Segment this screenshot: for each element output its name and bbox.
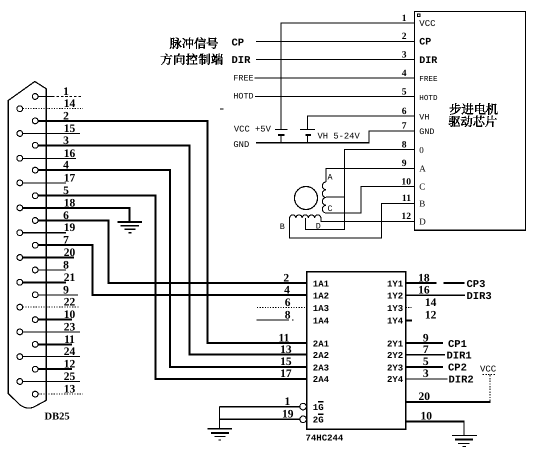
- wire 1G enable: [220, 406, 300, 408]
- svg-text:HOTD: HOTD: [233, 91, 253, 101]
- wire DB25 pin4 to 74HC244 2A3: [38, 170, 307, 367]
- svg-text:12: 12: [401, 211, 411, 222]
- wire DB25 pin8 stub: [38, 269, 66, 271]
- wire 2Y2 to DIR1: [406, 354, 445, 356]
- svg-text:CP: CP: [232, 38, 245, 50]
- svg-text:10: 10: [401, 176, 411, 187]
- svg-text:GND: GND: [233, 140, 249, 150]
- svg-text:FREE: FREE: [419, 76, 438, 84]
- wire DB25 pin12 stub: [38, 368, 72, 370]
- wire DB25 pin11 stub: [38, 343, 72, 345]
- svg-text:D: D: [419, 217, 426, 227]
- svg-text:17: 17: [280, 368, 292, 380]
- svg-text:2G: 2G: [313, 416, 324, 426]
- DB25 pin 23 contact: [17, 329, 23, 335]
- svg-text:CP: CP: [419, 38, 431, 49]
- wire phase A coil to driver pin9: [326, 168, 415, 182]
- svg-text:7: 7: [402, 121, 407, 132]
- wire 1Y2 to DIR3: [406, 294, 465, 296]
- wire VCC to U1 pin20 (dotted drop): [489, 375, 491, 402]
- wire 1Y3 stub (dotted): [406, 307, 412, 309]
- svg-text:0: 0: [419, 145, 424, 155]
- wire 2Y1 to CP1: [406, 342, 443, 344]
- svg-text:C: C: [328, 204, 333, 214]
- DB25 pin 16 contact: [17, 155, 23, 161]
- wire driver pin1 VCC to battery B1: [281, 23, 415, 129]
- driver pin 1 stub: [401, 22, 415, 24]
- wire DB25 pin19 stub: [23, 232, 66, 234]
- wire U1 1A4 stub: [257, 319, 290, 321]
- wire common 0 driver pin8: [306, 150, 415, 230]
- DB25 pin 5 contact: [32, 193, 38, 199]
- svg-text:VCC: VCC: [480, 365, 497, 375]
- DB25 pin 7 contact: [32, 242, 38, 248]
- svg-text:8: 8: [285, 309, 291, 321]
- connector J1 DB25 outline: [8, 82, 46, 409]
- wire enable to ground G2: [219, 407, 221, 428]
- svg-text:1G: 1G: [313, 403, 324, 413]
- wire DB25 pin18 to ground: [23, 208, 130, 222]
- svg-text:13: 13: [280, 344, 292, 356]
- wire DB25 pin24 stub: [23, 356, 80, 358]
- DB25 pin 2 contact: [32, 118, 38, 124]
- wire 2Y4 to DIR2: [406, 378, 448, 380]
- DB25 pin 3 contact: [32, 142, 38, 148]
- wire phase B coil to driver pin11: [290, 203, 415, 238]
- wire 1Y1 to CP3: [406, 282, 437, 284]
- svg-text:A: A: [328, 173, 334, 183]
- svg-text:11: 11: [279, 332, 290, 344]
- svg-text:2A1: 2A1: [313, 340, 330, 350]
- svg-text:15: 15: [280, 356, 292, 368]
- DB25 pin 19 contact: [17, 230, 23, 236]
- wire DB25 pin10 stub: [38, 319, 72, 321]
- svg-text:CP2: CP2: [448, 363, 467, 375]
- wire U1 pin20 VCC supply: [406, 401, 491, 403]
- U1 1G inverter bubble: [300, 403, 307, 410]
- svg-text:1Y3: 1Y3: [387, 304, 403, 314]
- svg-text:14: 14: [425, 297, 437, 309]
- wire DB25 pin7 to 74HC244 1A2: [38, 245, 307, 295]
- driver pin 6 stub: [401, 115, 415, 117]
- battery B2 VH positive plate: [300, 129, 315, 131]
- svg-text:A: A: [419, 164, 426, 174]
- svg-text:FREE: FREE: [233, 73, 253, 83]
- svg-text:DIR1: DIR1: [447, 350, 472, 362]
- DB25 pin 13 contact: [32, 391, 38, 397]
- svg-text:CP3: CP3: [467, 279, 486, 291]
- wire DIR to driver pin3: [256, 59, 415, 61]
- wire battery B1 to GND rail: [280, 136, 282, 143]
- wire U1 1A3 stub (dotted): [257, 307, 307, 309]
- wire DB25 pin6 to 74HC244 1A1: [38, 221, 307, 284]
- wire DB25 pin2 to 74HC244 2A1: [38, 121, 307, 343]
- svg-text:B: B: [280, 222, 285, 232]
- label pulse-signal (Chinese) 脉冲信号: [170, 37, 218, 48]
- wire DB25 pin13 stub (dotted): [38, 393, 83, 395]
- svg-text:2A4: 2A4: [313, 375, 330, 385]
- wire DB25 pin17 stub: [23, 182, 66, 184]
- driver pin 7 stub: [401, 130, 415, 132]
- DB25 pin 24 contact: [17, 354, 23, 360]
- wire DB25 pin14 stub (dotted): [23, 108, 83, 110]
- wire 2Y3 to CP2: [406, 366, 443, 368]
- svg-text:6: 6: [285, 297, 291, 309]
- driver pin 9 stub: [401, 167, 415, 169]
- battery B1 +5V positive plate: [275, 129, 287, 131]
- stray dash mark: [220, 108, 224, 110]
- svg-text:DIR3: DIR3: [467, 291, 492, 303]
- svg-text:9: 9: [402, 158, 407, 169]
- driver chip pin1 index mark: [417, 14, 420, 17]
- svg-text:VH: VH: [419, 112, 429, 122]
- svg-text:B: B: [419, 199, 425, 209]
- battery B1 negative plate: [278, 134, 285, 136]
- svg-text:4: 4: [402, 68, 407, 79]
- DB25 pin 20 contact: [17, 255, 23, 261]
- DB25 pin 14 contact: [17, 106, 23, 112]
- svg-text:DIR: DIR: [419, 56, 437, 67]
- wire DB25 pin25 stub: [23, 381, 80, 383]
- svg-text:2Y2: 2Y2: [387, 351, 403, 361]
- label stepper-driver-chip (Chinese) line1 步进电机: [450, 103, 498, 114]
- wire driver pin6 VH to battery B2: [308, 116, 415, 129]
- battery B2 negative plate: [305, 134, 311, 136]
- svg-text:1: 1: [402, 13, 407, 24]
- svg-text:1Y2: 1Y2: [387, 292, 403, 302]
- DB25 pin 25 contact: [17, 379, 23, 385]
- svg-text:VCC: VCC: [419, 19, 436, 29]
- wire 1Y4 stub: [406, 320, 412, 322]
- svg-text:VCC +5V: VCC +5V: [234, 124, 272, 134]
- svg-text:11: 11: [402, 193, 411, 204]
- ground symbol G3: [452, 434, 477, 436]
- svg-text:D: D: [316, 222, 321, 232]
- driver pin 5 stub: [401, 96, 415, 98]
- svg-text:7: 7: [423, 344, 429, 356]
- wire DB25 pin9 stub: [38, 294, 78, 296]
- ground symbol G2: [208, 428, 232, 430]
- svg-text:2: 2: [283, 272, 289, 284]
- svg-text:5: 5: [402, 86, 407, 97]
- wire CP to driver pin2: [256, 40, 415, 42]
- wire phase C coil to driver pin10: [326, 187, 415, 214]
- wire FREE to driver pin4: [254, 77, 414, 79]
- wire DB25 pin20 stub: [23, 257, 74, 259]
- svg-text:GND: GND: [419, 127, 434, 137]
- inductor LB-LD horizontal winding: [290, 215, 321, 218]
- wire U1 pin10 to ground G3: [406, 420, 465, 422]
- driver pin 2 stub: [401, 40, 415, 42]
- svg-text:DIR: DIR: [232, 55, 252, 67]
- svg-text:2A2: 2A2: [313, 351, 329, 361]
- wire DB25 pin22 stub (dotted): [23, 306, 80, 308]
- svg-text:74HC244: 74HC244: [306, 433, 344, 443]
- svg-text:18: 18: [418, 272, 430, 284]
- svg-text:2A3: 2A3: [313, 363, 329, 373]
- U1 2G inverter bubble: [300, 416, 307, 423]
- DB25 pin 21 contact: [17, 279, 23, 285]
- label direction-control (Chinese) 方向控制端: [161, 53, 223, 64]
- DB25 pin 9 contact: [32, 292, 38, 298]
- DB25 pin 8 contact: [32, 267, 38, 273]
- wire HOTD to driver pin5: [255, 96, 414, 98]
- wire battery B2 to GND rail: [307, 136, 309, 143]
- DB25 pin 1 contact: [32, 94, 38, 100]
- DB25 pin 4 contact: [32, 167, 38, 173]
- wire 2G enable: [220, 418, 300, 420]
- svg-text:DB25: DB25: [45, 412, 70, 423]
- svg-text:1A2: 1A2: [313, 292, 329, 302]
- svg-text:C: C: [419, 182, 425, 192]
- wire U1 1A4 dot: [292, 319, 294, 321]
- wire DB25 pin16 stub: [23, 157, 76, 159]
- svg-text:2Y4: 2Y4: [387, 375, 404, 385]
- ground symbol G1 (DB25 pin18): [118, 221, 142, 223]
- DB25 pin 15 contact: [17, 131, 23, 137]
- VCC bar (dashed): [483, 374, 496, 376]
- wire DB25 pin3 to 74HC244 2A2: [38, 145, 307, 354]
- wire DB25 pin1 stub: [38, 96, 52, 98]
- svg-text:1A4: 1A4: [313, 317, 330, 327]
- svg-text:DIR2: DIR2: [449, 374, 474, 386]
- wire winding center tap to common: [326, 196, 345, 198]
- motor M1 body: [295, 187, 318, 210]
- wire DB25 pin23 stub: [23, 331, 80, 333]
- DB25 pin 17 contact: [17, 180, 23, 186]
- inductor LA-LC vertical winding: [322, 182, 325, 213]
- svg-text:4: 4: [284, 284, 290, 296]
- svg-text:6: 6: [402, 106, 407, 117]
- DB25 pin 11 contact: [32, 342, 38, 348]
- DB25 pin 18 contact: [17, 205, 23, 211]
- driver pin 12 stub: [401, 220, 415, 222]
- svg-text:12: 12: [425, 309, 437, 321]
- svg-text:HOTD: HOTD: [419, 94, 438, 103]
- svg-text:1Y4: 1Y4: [387, 317, 404, 327]
- wire DB25 pin5 to 74HC244 2A4: [38, 196, 307, 379]
- op-amp U2 stepper driver chip box: [414, 11, 525, 230]
- DB25 pin 22 contact: [17, 304, 23, 310]
- svg-text:2Y3: 2Y3: [387, 363, 403, 373]
- svg-text:3: 3: [402, 49, 407, 60]
- driver pin 8 stub: [401, 149, 415, 151]
- buffer U1 74HC244 box: [307, 272, 406, 429]
- svg-text:2: 2: [402, 31, 407, 42]
- svg-text:8: 8: [402, 139, 407, 150]
- svg-text:3: 3: [423, 368, 429, 380]
- svg-text:VH 5-24V: VH 5-24V: [318, 132, 361, 142]
- wire DB25 pin15 stub: [23, 133, 80, 135]
- driver pin 4 stub: [401, 77, 415, 79]
- svg-text:16: 16: [418, 284, 430, 296]
- wire DB25 pin21 stub: [23, 281, 66, 283]
- driver pin 10 stub: [401, 186, 415, 188]
- driver pin 11 stub: [401, 202, 415, 204]
- svg-text:1A1: 1A1: [313, 280, 330, 290]
- svg-text:1Y1: 1Y1: [387, 280, 404, 290]
- label stepper-driver-chip (Chinese) line2 驱动芯片: [449, 116, 497, 127]
- svg-text:1A3: 1A3: [313, 304, 329, 314]
- wire phase D coil to driver pin12: [321, 218, 415, 221]
- driver pin 3 stub: [401, 59, 415, 61]
- svg-text:CP1: CP1: [448, 339, 467, 351]
- DB25 pin 12 contact: [32, 366, 38, 372]
- wire GND rail to driver pin7: [256, 131, 415, 143]
- DB25 pin 6 contact: [32, 218, 38, 224]
- DB25 pin 10 contact: [32, 317, 38, 323]
- svg-text:2Y1: 2Y1: [387, 340, 404, 350]
